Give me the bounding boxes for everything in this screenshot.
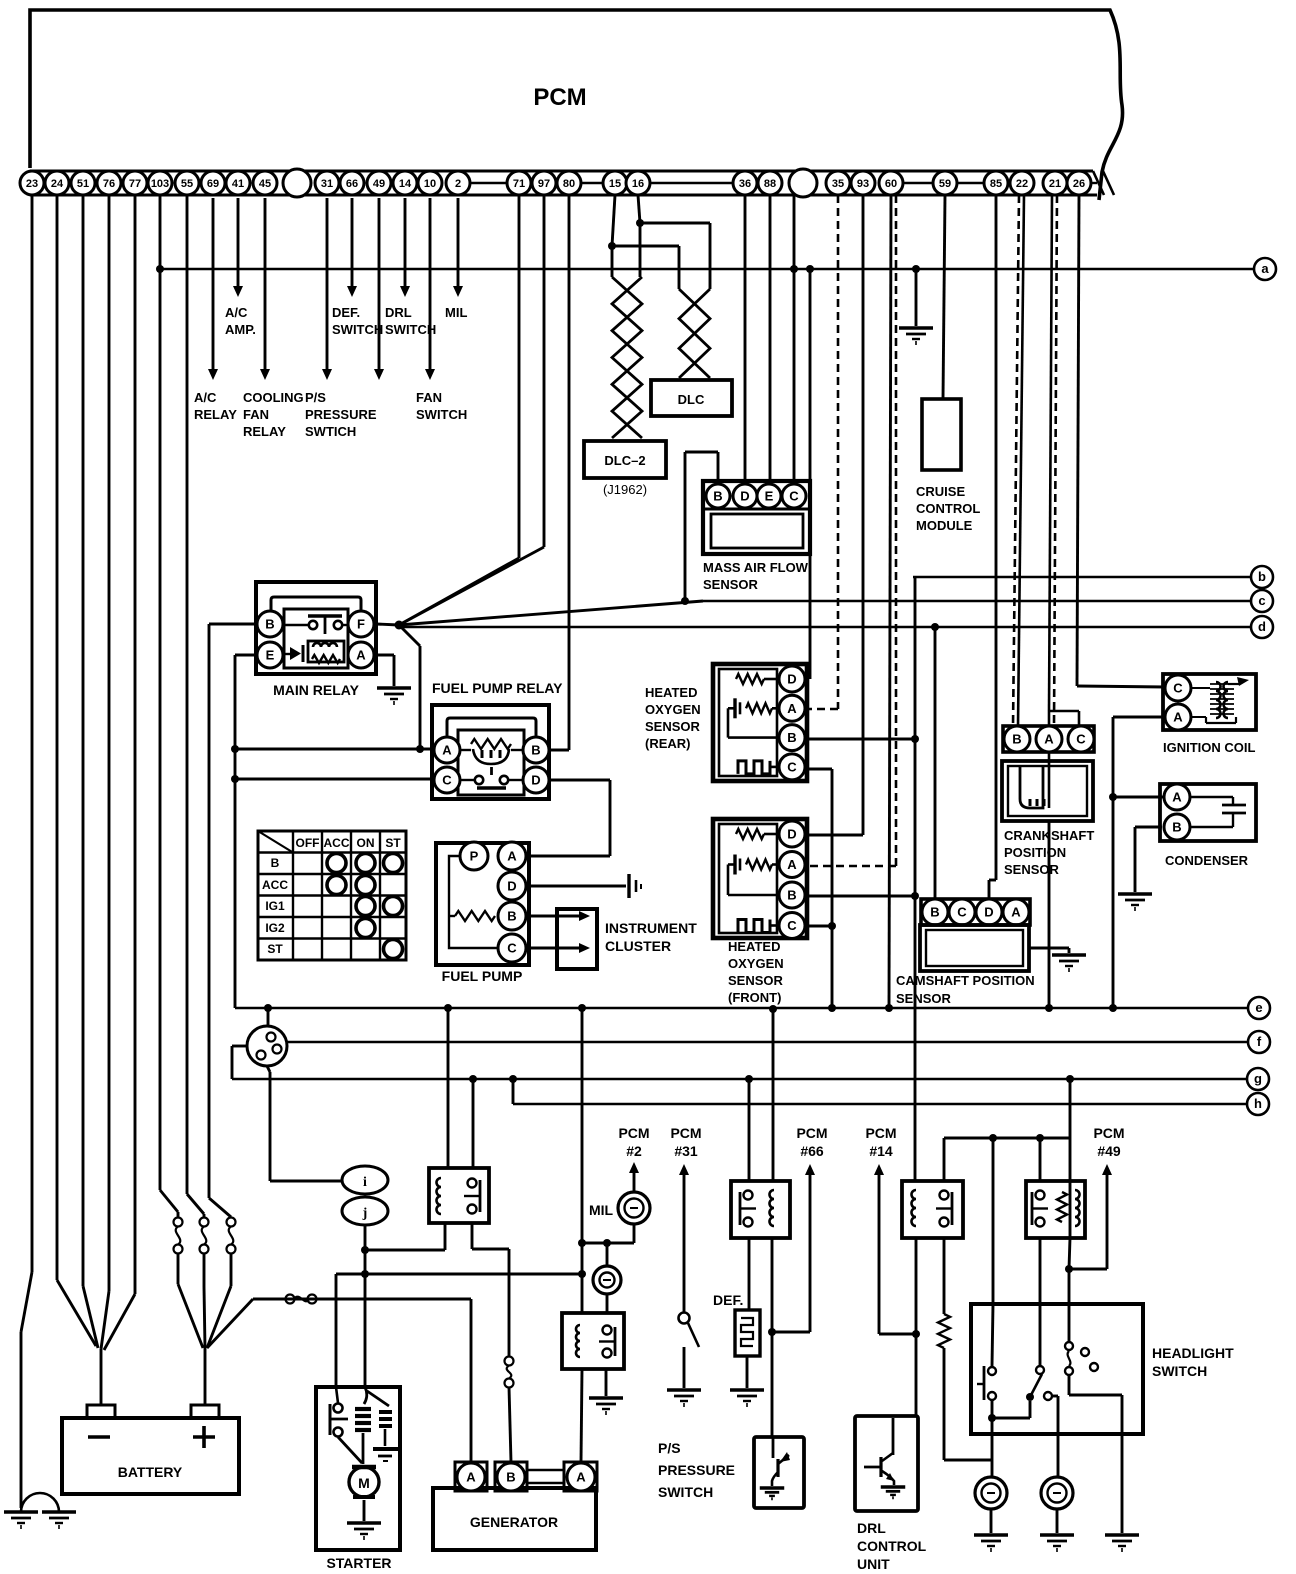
- svg-text:23: 23: [26, 178, 38, 190]
- svg-text:A/C: A/C: [194, 390, 217, 405]
- svg-text:71: 71: [513, 178, 525, 190]
- svg-text:A: A: [1173, 710, 1183, 725]
- svg-text:85: 85: [990, 178, 1002, 190]
- svg-text:CAMSHAFT POSITION: CAMSHAFT POSITION: [896, 973, 1035, 988]
- svg-text:E: E: [266, 648, 275, 663]
- svg-text:#14: #14: [869, 1143, 893, 1159]
- svg-text:B: B: [271, 856, 280, 870]
- svg-text:D: D: [531, 773, 540, 788]
- svg-text:CRUISE: CRUISE: [916, 484, 965, 499]
- svg-text:45: 45: [259, 178, 271, 190]
- svg-text:C: C: [787, 759, 797, 774]
- svg-text:h: h: [1254, 1096, 1262, 1111]
- svg-text:B: B: [1172, 820, 1181, 835]
- svg-text:B: B: [507, 909, 516, 924]
- svg-text:FAN: FAN: [416, 390, 442, 405]
- svg-text:B: B: [506, 1470, 515, 1485]
- svg-text:SENSOR: SENSOR: [896, 991, 952, 1006]
- svg-text:i: i: [363, 1175, 367, 1190]
- svg-text:SENSOR: SENSOR: [728, 973, 784, 988]
- svg-text:76: 76: [103, 178, 115, 190]
- svg-text:PCM: PCM: [1093, 1125, 1124, 1141]
- svg-text:ON: ON: [357, 836, 375, 850]
- svg-text:HEADLIGHT: HEADLIGHT: [1152, 1345, 1234, 1361]
- svg-text:SENSOR: SENSOR: [645, 719, 701, 734]
- svg-text:B: B: [713, 489, 722, 504]
- svg-text:103: 103: [151, 178, 169, 190]
- svg-text:P/S: P/S: [658, 1440, 681, 1456]
- svg-text:D: D: [740, 489, 749, 504]
- svg-text:PCM: PCM: [670, 1125, 701, 1141]
- svg-text:D: D: [787, 672, 796, 687]
- svg-text:IGNITION COIL: IGNITION COIL: [1163, 740, 1256, 755]
- svg-text:(FRONT): (FRONT): [728, 990, 781, 1005]
- svg-text:MODULE: MODULE: [916, 518, 973, 533]
- svg-text:ACC: ACC: [324, 836, 350, 850]
- svg-text:49: 49: [373, 178, 385, 190]
- svg-text:CLUSTER: CLUSTER: [605, 938, 671, 954]
- svg-text:M: M: [358, 1475, 370, 1491]
- svg-text:STARTER: STARTER: [326, 1555, 391, 1571]
- svg-text:DEF.: DEF.: [332, 305, 360, 320]
- svg-text:CONTROL: CONTROL: [916, 501, 980, 516]
- svg-text:B: B: [787, 888, 796, 903]
- svg-text:SWITCH: SWITCH: [658, 1484, 713, 1500]
- svg-text:a: a: [1261, 261, 1269, 276]
- svg-text:ST: ST: [385, 836, 401, 850]
- svg-text:e: e: [1255, 1000, 1262, 1015]
- svg-text:OFF: OFF: [296, 836, 320, 850]
- svg-text:D: D: [507, 879, 516, 894]
- svg-text:31: 31: [321, 178, 333, 190]
- svg-text:MASS AIR FLOW: MASS AIR FLOW: [703, 560, 809, 575]
- svg-text:FUEL PUMP RELAY: FUEL PUMP RELAY: [432, 680, 563, 696]
- svg-text:b: b: [1258, 569, 1266, 584]
- svg-text:SENSOR: SENSOR: [703, 577, 759, 592]
- svg-text:GENERATOR: GENERATOR: [470, 1514, 558, 1530]
- svg-text:66: 66: [346, 178, 358, 190]
- svg-text:c: c: [1258, 593, 1265, 608]
- svg-text:POSITION: POSITION: [1004, 845, 1066, 860]
- svg-text:35: 35: [832, 178, 844, 190]
- svg-text:C: C: [957, 905, 967, 920]
- svg-text:COOLING: COOLING: [243, 390, 304, 405]
- svg-text:A: A: [356, 648, 366, 663]
- svg-text:PRESSURE: PRESSURE: [305, 407, 377, 422]
- svg-text:IG1: IG1: [265, 899, 285, 913]
- svg-text:B: B: [531, 743, 540, 758]
- svg-text:2: 2: [455, 178, 461, 190]
- svg-text:SWITCH: SWITCH: [1152, 1363, 1207, 1379]
- svg-text:P/S: P/S: [305, 390, 326, 405]
- svg-text:C: C: [1173, 681, 1183, 696]
- svg-text:60: 60: [885, 178, 897, 190]
- svg-text:10: 10: [424, 178, 436, 190]
- svg-text:CRANKSHAFT: CRANKSHAFT: [1004, 828, 1094, 843]
- svg-text:16: 16: [632, 178, 644, 190]
- svg-text:SWTICH: SWTICH: [305, 424, 356, 439]
- svg-text:24: 24: [51, 178, 64, 190]
- svg-text:RELAY: RELAY: [243, 424, 286, 439]
- svg-text:C: C: [442, 773, 452, 788]
- svg-text:ACC: ACC: [262, 878, 288, 892]
- svg-text:OXYGEN: OXYGEN: [728, 956, 784, 971]
- svg-text:59: 59: [939, 178, 951, 190]
- svg-text:51: 51: [77, 178, 89, 190]
- svg-text:A/C: A/C: [225, 305, 248, 320]
- svg-text:A: A: [466, 1470, 476, 1485]
- svg-text:D: D: [787, 827, 796, 842]
- svg-text:21: 21: [1049, 178, 1061, 190]
- svg-text:OXYGEN: OXYGEN: [645, 702, 701, 717]
- svg-text:A: A: [1044, 732, 1054, 747]
- svg-text:B: B: [930, 905, 939, 920]
- svg-text:E: E: [765, 489, 774, 504]
- svg-text:22: 22: [1016, 178, 1028, 190]
- svg-text:D: D: [984, 905, 993, 920]
- svg-text:A: A: [1011, 905, 1021, 920]
- svg-text:P: P: [470, 849, 479, 864]
- svg-text:B: B: [1012, 732, 1021, 747]
- svg-text:PCM: PCM: [533, 84, 586, 111]
- svg-text:(J1962): (J1962): [603, 482, 647, 497]
- svg-text:C: C: [507, 941, 517, 956]
- svg-text:#31: #31: [674, 1143, 698, 1159]
- svg-text:PCM: PCM: [796, 1125, 827, 1141]
- svg-text:UNIT: UNIT: [857, 1556, 890, 1572]
- svg-text:CONTROL: CONTROL: [857, 1538, 927, 1554]
- svg-text:A: A: [507, 849, 517, 864]
- svg-text:DLC: DLC: [678, 392, 705, 407]
- svg-text:69: 69: [207, 178, 219, 190]
- svg-text:HEATED: HEATED: [645, 685, 697, 700]
- svg-text:SWITCH: SWITCH: [416, 407, 467, 422]
- svg-text:#49: #49: [1097, 1143, 1121, 1159]
- svg-text:BATTERY: BATTERY: [118, 1464, 183, 1480]
- svg-text:A: A: [1172, 790, 1182, 805]
- svg-text:B: B: [787, 730, 796, 745]
- svg-text:C: C: [787, 918, 797, 933]
- svg-text:DRL: DRL: [385, 305, 412, 320]
- svg-text:SWITCH: SWITCH: [332, 322, 383, 337]
- svg-text:93: 93: [857, 178, 869, 190]
- svg-text:C: C: [1076, 732, 1086, 747]
- svg-text:CONDENSER: CONDENSER: [1165, 853, 1249, 868]
- svg-text:97: 97: [538, 178, 550, 190]
- svg-text:55: 55: [181, 178, 193, 190]
- svg-text:DEF.: DEF.: [713, 1292, 743, 1308]
- svg-text:B: B: [265, 617, 274, 632]
- svg-text:A: A: [787, 857, 797, 872]
- svg-text:HEATED: HEATED: [728, 939, 780, 954]
- svg-text:41: 41: [232, 178, 244, 190]
- svg-text:AMP.: AMP.: [225, 322, 256, 337]
- svg-text:88: 88: [764, 178, 776, 190]
- svg-text:RELAY: RELAY: [194, 407, 237, 422]
- svg-text:15: 15: [609, 178, 621, 190]
- svg-text:C: C: [789, 489, 799, 504]
- svg-text:d: d: [1258, 619, 1266, 634]
- svg-text:77: 77: [129, 178, 141, 190]
- svg-text:MIL: MIL: [589, 1202, 614, 1218]
- svg-text:MAIN RELAY: MAIN RELAY: [273, 682, 359, 698]
- svg-text:f: f: [1257, 1034, 1262, 1049]
- svg-text:#66: #66: [800, 1143, 824, 1159]
- svg-text:A: A: [787, 701, 797, 716]
- svg-text:80: 80: [563, 178, 575, 190]
- svg-text:MIL: MIL: [445, 305, 467, 320]
- svg-text:A: A: [442, 743, 452, 758]
- svg-text:DLC–2: DLC–2: [604, 453, 645, 468]
- svg-text:INSTRUMENT: INSTRUMENT: [605, 920, 697, 936]
- svg-text:j: j: [362, 1206, 368, 1221]
- svg-text:PCM: PCM: [865, 1125, 896, 1141]
- svg-text:A: A: [576, 1470, 586, 1485]
- svg-text:26: 26: [1073, 178, 1085, 190]
- svg-text:DRL: DRL: [857, 1520, 886, 1536]
- svg-text:(REAR): (REAR): [645, 736, 691, 751]
- svg-text:#2: #2: [626, 1143, 642, 1159]
- svg-text:FAN: FAN: [243, 407, 269, 422]
- svg-text:SENSOR: SENSOR: [1004, 862, 1060, 877]
- svg-text:g: g: [1254, 1071, 1262, 1086]
- svg-text:F: F: [357, 617, 365, 632]
- svg-text:ST: ST: [267, 942, 283, 956]
- svg-text:PCM: PCM: [618, 1125, 649, 1141]
- svg-text:14: 14: [399, 178, 412, 190]
- svg-text:PRESSURE: PRESSURE: [658, 1462, 735, 1478]
- svg-text:FUEL PUMP: FUEL PUMP: [442, 968, 523, 984]
- svg-text:IG2: IG2: [265, 921, 285, 935]
- svg-text:36: 36: [739, 178, 751, 190]
